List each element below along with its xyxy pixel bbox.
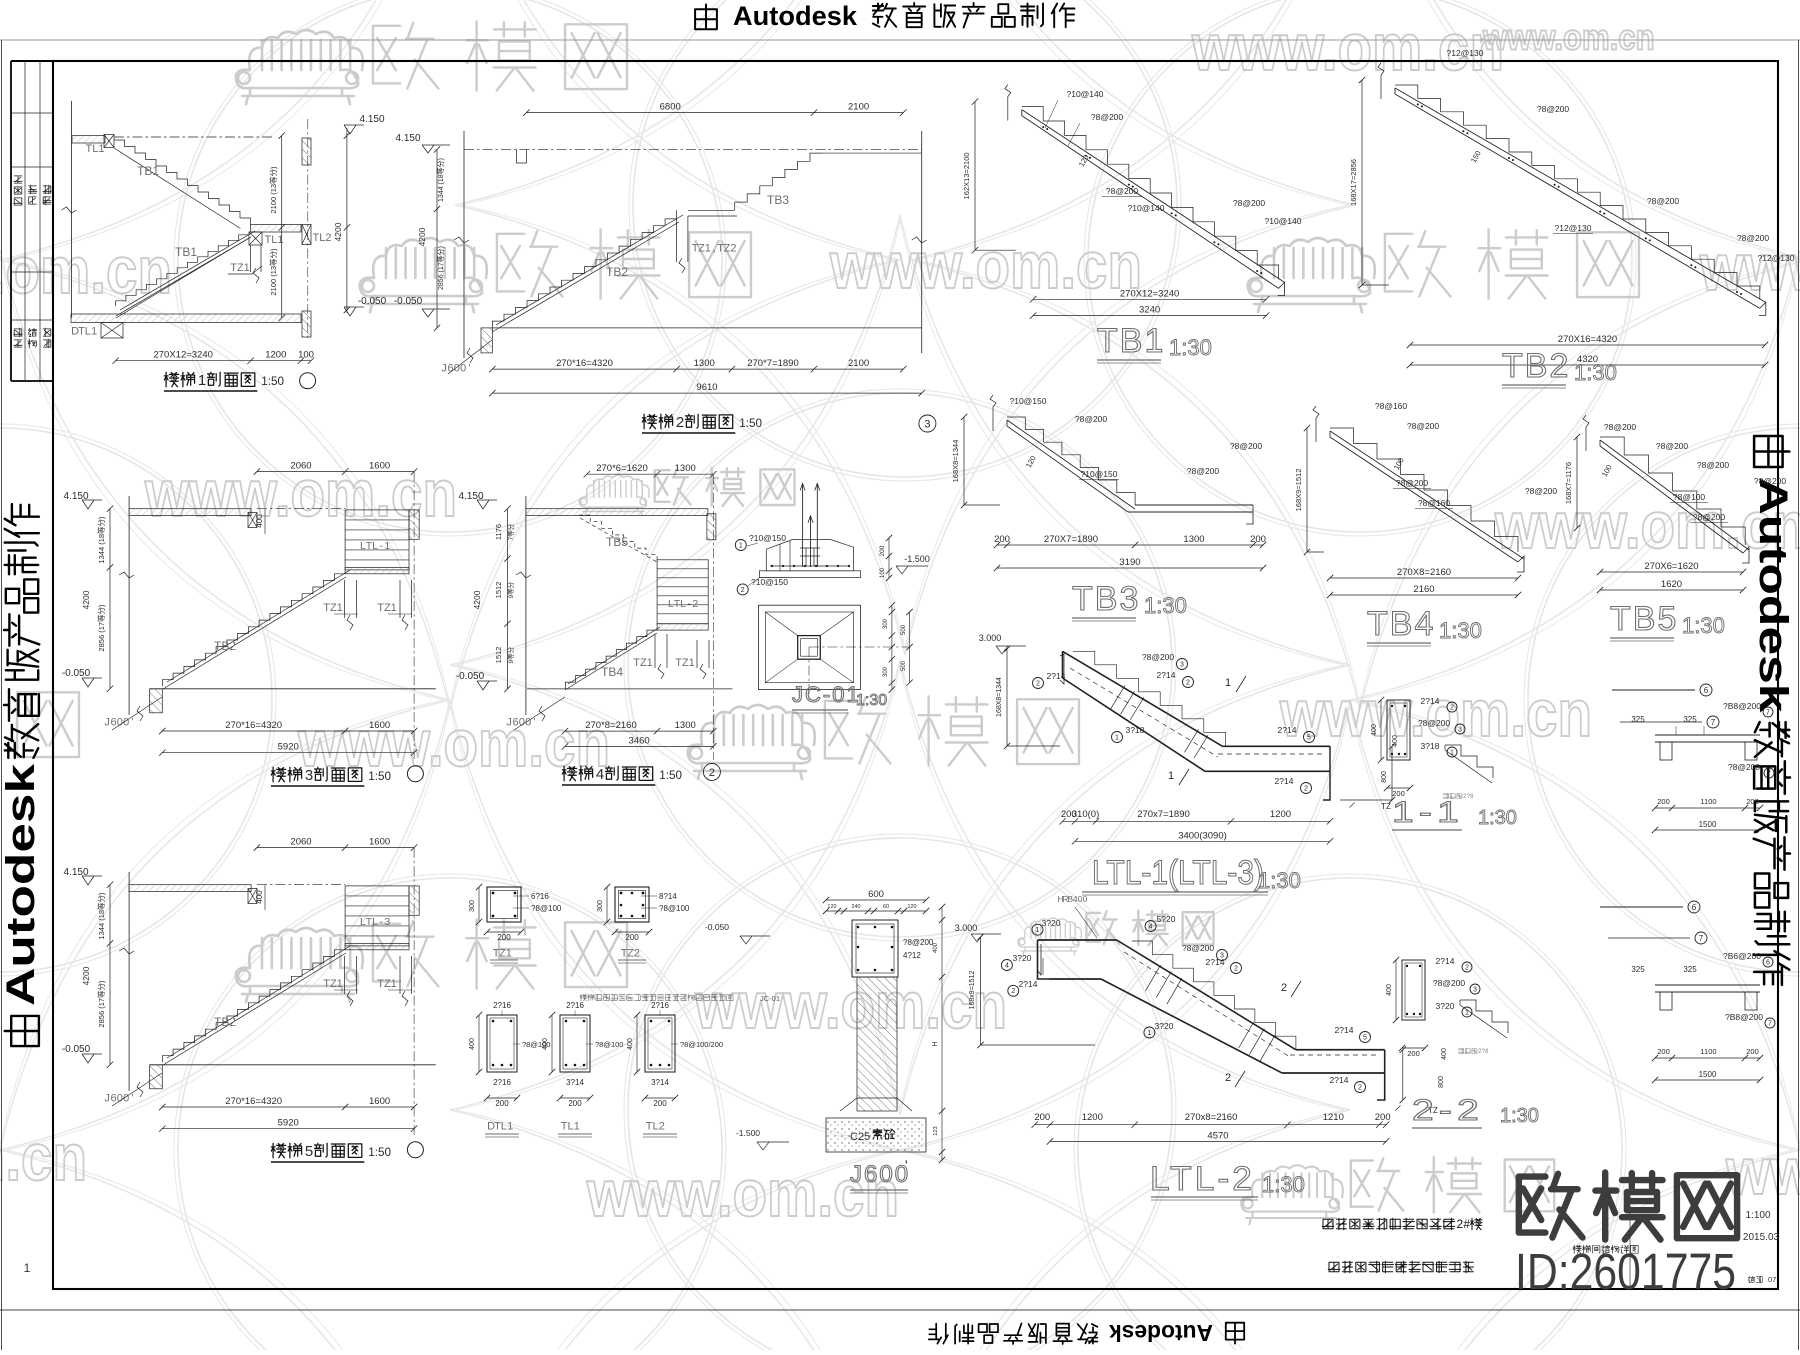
svg-text:1344 (18等分): 1344 (18等分): [436, 158, 445, 202]
svg-text:5920: 5920: [278, 742, 299, 753]
svg-text:2: 2: [634, 947, 640, 959]
svg-text:4: 4: [1005, 963, 1009, 970]
svg-text:?8@200: ?8@200: [1091, 112, 1124, 122]
svg-text:2: 2: [1358, 1085, 1362, 1092]
svg-text:200: 200: [1375, 1112, 1391, 1123]
svg-text:4200: 4200: [81, 590, 91, 609]
svg-text:6: 6: [1704, 686, 1709, 695]
svg-text:100: 100: [298, 350, 314, 361]
svg-text:800: 800: [1381, 771, 1388, 783]
svg-text:1: 1: [506, 947, 512, 959]
svg-text:2?14: 2?14: [1047, 671, 1066, 681]
svg-text:TB4: TB4: [601, 665, 623, 679]
svg-text:?8@200: ?8@200: [1537, 104, 1570, 114]
svg-text:TB5: TB5: [606, 535, 628, 549]
svg-text:TB1: TB1: [1097, 322, 1165, 360]
svg-text:1:50: 1:50: [368, 1146, 391, 1159]
svg-text:1:30: 1:30: [1144, 593, 1187, 618]
svg-text:4200: 4200: [333, 222, 343, 241]
svg-text:325: 325: [1683, 965, 1697, 974]
svg-text:J600: J600: [850, 1161, 910, 1188]
svg-text:400: 400: [627, 1038, 634, 1050]
svg-text:J: J: [104, 1092, 110, 1104]
svg-text:': ': [132, 1092, 134, 1104]
svg-text:?8@200: ?8@200: [1604, 422, 1637, 432]
svg-text:2?16: 2?16: [566, 1001, 584, 1010]
svg-text:1200: 1200: [265, 350, 286, 361]
svg-text:9等分: 9等分: [506, 581, 515, 598]
svg-text:2100: 2100: [848, 102, 869, 113]
svg-text:2100 (13等分): 2100 (13等分): [268, 248, 278, 296]
svg-text:1: 1: [1225, 677, 1231, 689]
svg-text:1200: 1200: [1270, 809, 1291, 820]
svg-text:H: H: [932, 1041, 939, 1046]
svg-text:200: 200: [495, 1099, 509, 1108]
svg-text:6: 6: [110, 1092, 116, 1104]
svg-text:400: 400: [542, 1038, 549, 1050]
svg-text:2856 (17等分): 2856 (17等分): [96, 980, 106, 1028]
svg-text:270*8=2160: 270*8=2160: [585, 720, 637, 731]
svg-text:5?20: 5?20: [1157, 914, 1176, 924]
svg-text:L: L: [85, 325, 91, 337]
svg-text:Autodesk: Autodesk: [1751, 478, 1795, 714]
svg-text:1: 1: [198, 372, 206, 389]
svg-text:1: 1: [91, 325, 97, 337]
svg-text:TB1: TB1: [137, 164, 159, 178]
svg-text:2: 2: [1304, 786, 1308, 793]
svg-text:1:30: 1:30: [1682, 613, 1725, 638]
svg-text:1100: 1100: [1700, 1047, 1716, 1056]
svg-text:2-2: 2-2: [1412, 1094, 1484, 1127]
svg-text:TZ1: TZ1: [377, 602, 397, 614]
svg-text:270*6=1620: 270*6=1620: [596, 463, 648, 474]
svg-text:7等分: 7等分: [506, 523, 515, 540]
svg-text:400: 400: [469, 1038, 476, 1050]
svg-text:4.150: 4.150: [63, 867, 88, 878]
svg-text:TZ1: TZ1: [377, 978, 397, 990]
svg-text:?8@200: ?8@200: [1187, 466, 1220, 476]
svg-text:1500: 1500: [1699, 820, 1717, 829]
svg-text:?B6@200: ?B6@200: [1723, 951, 1761, 961]
svg-text:4570: 4570: [1207, 1130, 1228, 1141]
svg-text:?8@200: ?8@200: [1728, 762, 1761, 772]
svg-text:2: 2: [1450, 705, 1454, 712]
svg-text:3.000: 3.000: [955, 923, 978, 933]
svg-text:400: 400: [1371, 724, 1378, 736]
svg-text:200: 200: [1407, 1049, 1420, 1058]
svg-text:1: 1: [1450, 750, 1454, 757]
svg-text:TZ1: TZ1: [230, 262, 250, 274]
svg-text:9610: 9610: [696, 382, 717, 393]
svg-text:2160: 2160: [1413, 584, 1434, 595]
svg-text:?8@100: ?8@100: [659, 904, 690, 913]
svg-text:TB1: TB1: [175, 245, 197, 259]
svg-text:www.om.cn: www.om.cn: [297, 706, 610, 780]
svg-text:,: ,: [713, 242, 716, 254]
svg-text:?8@100: ?8@100: [531, 904, 562, 913]
svg-text:TB3: TB3: [767, 193, 789, 207]
svg-text:1600: 1600: [369, 1096, 390, 1107]
svg-text:?10@140: ?10@140: [1128, 203, 1165, 213]
svg-text:4.150: 4.150: [359, 114, 384, 125]
svg-text:J: J: [506, 716, 512, 728]
svg-text:1344 (18等分): 1344 (18等分): [96, 516, 106, 564]
svg-text:1:30: 1:30: [1169, 335, 1212, 360]
svg-text:L: L: [372, 916, 378, 928]
svg-text:TB2: TB2: [1502, 347, 1570, 385]
svg-text:168X7=1176: 168X7=1176: [1564, 462, 1573, 504]
svg-text:1:50: 1:50: [368, 770, 391, 783]
svg-text:1: 1: [1168, 770, 1174, 782]
svg-text:6: 6: [1766, 960, 1770, 967]
svg-text:-: -: [687, 598, 691, 610]
svg-text:1: 1: [1147, 1030, 1151, 1037]
svg-text:?8@200: ?8@200: [1407, 421, 1440, 431]
svg-text:200: 200: [1034, 1112, 1050, 1123]
svg-text:1:30: 1:30: [1574, 360, 1617, 385]
svg-text:2?14: 2?14: [1436, 956, 1455, 966]
svg-text:?8@200: ?8@200: [1396, 478, 1429, 488]
svg-text:1300: 1300: [1183, 534, 1204, 545]
svg-text:-0.050: -0.050: [705, 922, 729, 932]
svg-text:07: 07: [1768, 1275, 1776, 1284]
svg-text:?8@200: ?8@200: [1647, 196, 1680, 206]
svg-text:270X8=2160: 270X8=2160: [1397, 567, 1451, 578]
svg-text:2100 (13等分): 2100 (13等分): [268, 166, 278, 214]
svg-text:60: 60: [883, 904, 889, 910]
svg-text:1:30: 1:30: [1500, 1105, 1539, 1127]
svg-text:400: 400: [1441, 1048, 1448, 1060]
svg-text:?8@200: ?8@200: [1656, 441, 1689, 451]
svg-text:2: 2: [1036, 681, 1040, 688]
svg-text:3: 3: [1180, 662, 1184, 669]
svg-text:3.000: 3.000: [979, 633, 1002, 643]
svg-text:2060: 2060: [290, 837, 311, 848]
svg-text:J: J: [104, 716, 110, 728]
svg-text:1500: 1500: [1699, 1070, 1717, 1079]
svg-text:310(0): 310(0): [1072, 809, 1099, 820]
svg-text:2?14: 2?14: [1019, 979, 1038, 989]
svg-text:3190: 3190: [1119, 557, 1140, 568]
svg-text:?8@100: ?8@100: [595, 1040, 623, 1049]
svg-text:C25: C25: [850, 1131, 870, 1143]
svg-text:': ': [534, 716, 536, 728]
svg-text:TB2: TB2: [606, 265, 628, 279]
svg-text:1:50: 1:50: [659, 769, 682, 782]
svg-text:?12@130: ?12@130: [1758, 253, 1795, 263]
svg-text:?12@130: ?12@130: [1447, 48, 1484, 58]
svg-text:200: 200: [994, 534, 1010, 545]
svg-text:7: 7: [1711, 718, 1716, 727]
svg-text:200: 200: [1250, 534, 1266, 545]
svg-text:3: 3: [924, 418, 930, 430]
svg-text:1300: 1300: [675, 720, 696, 731]
svg-text:?8@200: ?8@200: [1230, 441, 1263, 451]
svg-text:L: L: [501, 1120, 507, 1132]
svg-text:270X6=1620: 270X6=1620: [1644, 561, 1698, 572]
svg-text:': ': [469, 362, 471, 374]
svg-text:500: 500: [901, 624, 907, 635]
svg-text:2: 2: [1281, 982, 1287, 994]
svg-text:-: -: [379, 916, 383, 928]
svg-text:200: 200: [1657, 797, 1670, 806]
svg-text:7: 7: [1766, 710, 1770, 717]
svg-text:168x9=1512: 168x9=1512: [969, 971, 976, 1010]
svg-text:1512: 1512: [494, 582, 503, 599]
svg-text:600: 600: [868, 889, 884, 900]
svg-text:9等分: 9等分: [506, 646, 515, 663]
svg-text:6: 6: [512, 716, 518, 728]
svg-text:3?20: 3?20: [1155, 1021, 1174, 1031]
svg-text:500: 500: [901, 660, 907, 671]
svg-text:270x8=2160: 270x8=2160: [1185, 1112, 1238, 1123]
svg-text:?8@200: ?8@200: [1106, 186, 1139, 196]
svg-text:300: 300: [883, 618, 889, 629]
svg-text:?10@150: ?10@150: [1081, 469, 1118, 479]
svg-text:4200: 4200: [417, 227, 427, 246]
svg-text:?8@160: ?8@160: [1375, 401, 1408, 411]
svg-text:2?14: 2?14: [1330, 1075, 1349, 1085]
svg-text:1600: 1600: [369, 461, 390, 472]
svg-text:168X8=1344: 168X8=1344: [996, 677, 1003, 717]
svg-text:2: 2: [730, 242, 736, 254]
svg-text:5: 5: [1307, 735, 1311, 742]
svg-text:TB3: TB3: [1072, 580, 1140, 618]
svg-text:8?14: 8?14: [659, 892, 677, 901]
svg-text:1344 (18等分): 1344 (18等分): [96, 892, 106, 940]
svg-text:270X16=4320: 270X16=4320: [1558, 334, 1617, 345]
svg-text:-0.050: -0.050: [358, 296, 387, 307]
svg-text:1:30: 1:30: [1258, 868, 1301, 893]
svg-text:240: 240: [851, 904, 860, 910]
svg-text:JC-01: JC-01: [792, 682, 861, 707]
svg-text:2: 2: [741, 587, 745, 594]
svg-text:?8@200: ?8@200: [1737, 233, 1770, 243]
svg-text:100: 100: [880, 567, 886, 578]
svg-text:?8@200: ?8@200: [1754, 476, 1787, 486]
svg-text:400: 400: [255, 514, 264, 528]
svg-text:TZ1: TZ1: [323, 978, 343, 990]
svg-text:4: 4: [1149, 924, 1153, 931]
svg-text:2?14: 2?14: [1206, 957, 1225, 967]
svg-text:?10@150: ?10@150: [1010, 396, 1047, 406]
svg-text:6?16: 6?16: [531, 892, 549, 901]
svg-text:3?20: 3?20: [1042, 918, 1061, 928]
svg-text:1512: 1512: [494, 647, 503, 664]
svg-text:123: 123: [933, 1126, 939, 1135]
svg-text:1: 1: [384, 540, 390, 552]
svg-text:1: 1: [1115, 735, 1119, 742]
svg-text:200: 200: [653, 1099, 667, 1108]
svg-text:Autodesk: Autodesk: [1109, 1320, 1213, 1346]
svg-text:1:50: 1:50: [261, 375, 284, 388]
svg-text:1:30: 1:30: [1439, 618, 1482, 643]
svg-text:2?16: 2?16: [493, 1078, 511, 1087]
svg-text:800: 800: [1438, 1076, 1445, 1088]
svg-text:?8@200: ?8@200: [1693, 512, 1726, 522]
svg-text:L: L: [652, 1120, 658, 1132]
svg-text:2?16: 2?16: [493, 1001, 511, 1010]
svg-text:2?14: 2?14: [1335, 1025, 1354, 1035]
svg-text:3240: 3240: [1139, 305, 1160, 316]
svg-text:www.om.cn: www.om.cn: [1191, 10, 1504, 84]
svg-text:1300: 1300: [694, 358, 715, 369]
svg-text:?8@100/200: ?8@100/200: [680, 1040, 723, 1049]
svg-text:400: 400: [933, 942, 939, 953]
svg-text:162X13=2100: 162X13=2100: [962, 152, 971, 199]
svg-text:4: 4: [596, 766, 604, 783]
svg-text:400: 400: [255, 890, 264, 904]
svg-text:TZ1: TZ1: [675, 657, 695, 669]
svg-text:?8@200: ?8@200: [1182, 943, 1215, 953]
svg-text:2?14: 2?14: [1278, 725, 1297, 735]
svg-text:2: 2: [1225, 1072, 1231, 1084]
svg-text:120: 120: [827, 904, 836, 910]
svg-text:325: 325: [1631, 715, 1645, 724]
svg-text:2856 (17等分): 2856 (17等分): [436, 246, 445, 290]
svg-text:?8@160: ?8@160: [1418, 498, 1451, 508]
svg-text:2?14: 2?14: [1421, 696, 1440, 706]
svg-text:300: 300: [469, 900, 476, 912]
svg-text:TZ1: TZ1: [633, 657, 653, 669]
svg-text:L: L: [680, 598, 686, 610]
svg-text:TL1: TL1: [86, 143, 105, 155]
svg-text:L: L: [372, 540, 378, 552]
svg-text:?8@200: ?8@200: [1525, 486, 1558, 496]
svg-text:200: 200: [1746, 797, 1759, 806]
svg-text:3?14: 3?14: [566, 1078, 584, 1087]
svg-text:2: 2: [692, 598, 698, 610]
svg-text:120: 120: [907, 904, 916, 910]
svg-text:200: 200: [1746, 1047, 1759, 1056]
svg-text:-0.050: -0.050: [62, 668, 91, 679]
svg-text:3?20: 3?20: [1013, 953, 1032, 963]
svg-text:www.om.cn: www.om.cn: [0, 233, 172, 307]
svg-text:1600: 1600: [369, 837, 390, 848]
svg-text:4?12: 4?12: [903, 951, 921, 960]
svg-text:?10@150: ?10@150: [751, 577, 788, 587]
svg-text:#: #: [1463, 1217, 1470, 1231]
svg-text:1600: 1600: [369, 720, 390, 731]
svg-text:2: 2: [1234, 966, 1238, 973]
svg-text:2: 2: [709, 767, 715, 779]
svg-text:1:30: 1:30: [1262, 1172, 1305, 1197]
svg-text:LTL-1(LTL-3): LTL-1(LTL-3): [1092, 854, 1264, 892]
svg-text:1-1: 1-1: [1392, 796, 1464, 829]
svg-text:168X17=2856: 168X17=2856: [1349, 159, 1358, 206]
svg-text:270*7=1890: 270*7=1890: [747, 358, 799, 369]
svg-text:1100: 1100: [1700, 797, 1716, 806]
svg-text:0: 0: [454, 362, 460, 374]
svg-text:-0.050: -0.050: [456, 671, 485, 682]
svg-text:0: 0: [1083, 894, 1088, 904]
svg-text:?B8@200: ?B8@200: [1725, 1012, 1763, 1022]
svg-text:-: -: [379, 540, 383, 552]
svg-text:-0.050: -0.050: [394, 296, 423, 307]
svg-text:1:30: 1:30: [1478, 807, 1517, 829]
svg-text:270X12=3240: 270X12=3240: [153, 350, 212, 361]
svg-text:3: 3: [305, 767, 313, 784]
svg-text:www.om.cn: www.om.cn: [829, 228, 1142, 302]
svg-text:?8@100: ?8@100: [1673, 492, 1706, 502]
svg-text:3: 3: [1473, 987, 1477, 994]
svg-text:300: 300: [883, 666, 889, 677]
svg-text:?8@200: ?8@200: [903, 938, 934, 947]
svg-text:2: 2: [1186, 680, 1190, 687]
svg-text:TL1: TL1: [265, 234, 284, 246]
svg-text:2: 2: [676, 414, 684, 431]
svg-text:2?14: 2?14: [1157, 670, 1176, 680]
svg-text:3?18: 3?18: [1421, 741, 1440, 751]
svg-text:270*16=4320: 270*16=4320: [225, 1096, 282, 1107]
svg-text:?8@200: ?8@200: [1433, 978, 1466, 988]
svg-text:200: 200: [1657, 1047, 1670, 1056]
svg-text:400: 400: [1392, 735, 1399, 747]
svg-text:TL2: TL2: [313, 232, 332, 244]
svg-text:5920: 5920: [278, 1118, 299, 1129]
svg-text:6: 6: [1692, 903, 1697, 912]
svg-text:3: 3: [384, 916, 390, 928]
svg-text:2100: 2100: [848, 358, 869, 369]
svg-text:200: 200: [625, 933, 639, 942]
svg-text:2060: 2060: [290, 461, 311, 472]
svg-text:www.om.cn: www.om.cn: [1482, 16, 1654, 57]
svg-text:1200: 1200: [1082, 1112, 1103, 1123]
svg-text:168X9=1512: 168X9=1512: [1294, 469, 1303, 512]
svg-text:?10@140: ?10@140: [1265, 216, 1302, 226]
svg-text:270x7=1890: 270x7=1890: [1137, 809, 1190, 820]
svg-text:5: 5: [305, 1143, 313, 1160]
svg-text:www.om.cn: www.om.cn: [0, 1120, 87, 1194]
svg-text:2?14: 2?14: [1275, 776, 1294, 786]
svg-text:TB4: TB4: [1367, 605, 1435, 643]
svg-text:4200: 4200: [81, 966, 91, 985]
svg-text:7: 7: [1768, 1021, 1772, 1028]
svg-text:168X8=1344: 168X8=1344: [951, 440, 960, 483]
svg-text:6: 6: [447, 362, 453, 374]
svg-text:1: 1: [705, 242, 711, 254]
svg-text:1: 1: [574, 1120, 580, 1132]
svg-text:1: 1: [24, 1261, 31, 1275]
svg-text:3400(3090): 3400(3090): [1178, 830, 1227, 841]
svg-text:JC-01: JC-01: [760, 994, 780, 1003]
svg-text:-1.500: -1.500: [736, 1128, 760, 1138]
svg-text:2?16: 2?16: [651, 1001, 669, 1010]
svg-text:1176: 1176: [494, 524, 503, 540]
svg-text:5: 5: [1363, 1035, 1367, 1042]
svg-text:200: 200: [497, 933, 511, 942]
svg-text:4.150: 4.150: [395, 133, 420, 144]
svg-text:1:30: 1:30: [856, 692, 887, 709]
svg-text:3: 3: [1458, 727, 1462, 734]
svg-text:-1.500: -1.500: [904, 554, 930, 564]
svg-text:7: 7: [1767, 771, 1771, 778]
svg-text:1:100: 1:100: [1745, 1210, 1770, 1221]
svg-text:3?18: 3?18: [1126, 725, 1145, 735]
svg-text:7: 7: [1699, 934, 1704, 943]
svg-text:?8@200: ?8@200: [1697, 460, 1730, 470]
svg-text:270*16=4320: 270*16=4320: [225, 720, 282, 731]
svg-text:270X7=1890: 270X7=1890: [1044, 534, 1098, 545]
svg-text:TZ: TZ: [1381, 802, 1391, 811]
svg-text:3460: 3460: [629, 735, 650, 746]
svg-text:?8@200: ?8@200: [1418, 718, 1451, 728]
svg-text:www.om.cn: www.om.cn: [1279, 676, 1592, 750]
svg-text:325: 325: [1683, 715, 1697, 724]
svg-text:TB5: TB5: [1610, 600, 1678, 638]
svg-text:200: 200: [568, 1099, 582, 1108]
svg-text:200: 200: [879, 545, 886, 556]
